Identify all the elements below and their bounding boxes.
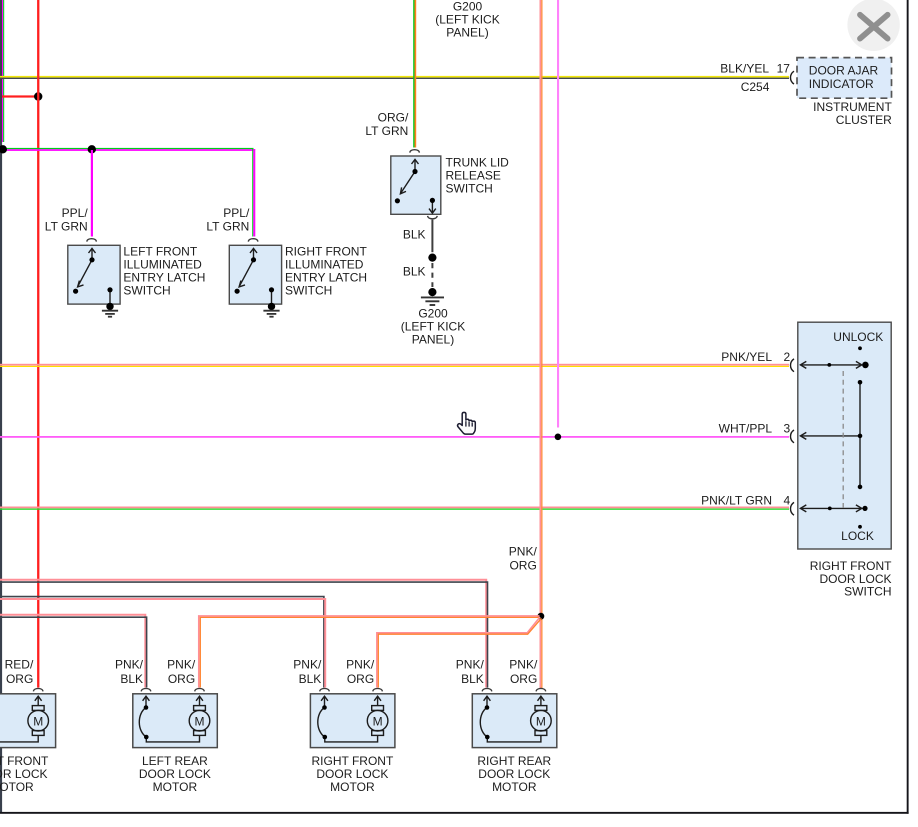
- connector arc right rear motor right pin: [536, 688, 546, 691]
- label WHT/PPL: [719, 422, 773, 436]
- wire BLK solid from trunk switch: [431, 220, 433, 253]
- svg-text:LT GRN: LT GRN: [206, 219, 249, 233]
- label right rear door lock motor: [477, 754, 551, 794]
- svg-text:SWITCH: SWITCH: [285, 284, 332, 298]
- left rear door lock motor: [133, 694, 218, 748]
- wire PPL/LT GRN horizontal to latch switches: [3, 148, 254, 151]
- right front illuminated entry latch switch S2: [229, 245, 281, 304]
- wire PNK/BLK to right front motor left pin: [0, 597, 325, 688]
- svg-text:BLK: BLK: [299, 672, 322, 686]
- label pin 2: [783, 350, 790, 364]
- svg-text:TRUNK LID: TRUNK LID: [446, 156, 510, 170]
- svg-text:ORG: ORG: [509, 559, 536, 573]
- label right front door lock motor: [312, 754, 394, 794]
- svg-text:MOTOR: MOTOR: [330, 780, 375, 794]
- svg-text:LEFT REAR: LEFT REAR: [142, 754, 208, 768]
- ground symbol G200: [421, 297, 444, 305]
- label PNK/ORG left rear: [167, 658, 196, 687]
- wire PNK/BLK to right rear motor left pin: [0, 580, 488, 688]
- svg-text:ORG: ORG: [6, 672, 33, 686]
- node junction dot red stub: [34, 92, 42, 100]
- svg-text:PNK/: PNK/: [509, 658, 538, 672]
- node junction dot PNK/ORG: [538, 613, 545, 620]
- door ajar indicator dashed box: [797, 58, 892, 99]
- connector cup below trunk switch: [428, 216, 438, 219]
- wire ORG/LT GRN vertical to trunk lid release switch: [413, 0, 416, 148]
- label left rear door lock motor: [139, 754, 211, 794]
- wire PPL vertical to left latch switch: [91, 150, 93, 237]
- ground symbol left latch switch: [102, 303, 118, 317]
- wire PNK/YEL horizontal to door lock switch pin 2: [0, 364, 789, 367]
- connector arc left rear motor left pin: [141, 688, 151, 691]
- mouse cursor pointer: [458, 412, 476, 434]
- svg-text:DOOR LOCK: DOOR LOCK: [0, 767, 48, 781]
- wire PPL vertical at left edge: [2, 0, 3, 142]
- svg-text:RIGHT FRONT: RIGHT FRONT: [285, 245, 367, 259]
- svg-text:RIGHT REAR: RIGHT REAR: [477, 754, 551, 768]
- connector arc right front motor left pin: [320, 688, 330, 691]
- svg-text:LEFT FRONT: LEFT FRONT: [0, 754, 49, 768]
- svg-text:PNK/YEL: PNK/YEL: [721, 350, 772, 364]
- svg-text:M: M: [195, 715, 205, 729]
- label ORG/LT GRN: [365, 111, 409, 139]
- label PNK/ORG right front: [346, 658, 375, 687]
- label trunk lid release switch: [446, 156, 510, 196]
- connector arc trunk lid release switch: [410, 150, 420, 153]
- label C254: [741, 80, 770, 94]
- svg-text:BLK/YEL: BLK/YEL: [720, 62, 769, 76]
- connector paren C254: [790, 71, 794, 84]
- svg-text:(LEFT KICK: (LEFT KICK: [401, 320, 465, 334]
- svg-text:4: 4: [783, 494, 790, 508]
- label BLK upper: [403, 228, 426, 242]
- svg-text:PANEL): PANEL): [412, 333, 454, 347]
- wire WHT/PPL vertical: [557, 0, 559, 428]
- trunk lid release switch S3: [391, 156, 441, 214]
- svg-text:LOCK: LOCK: [841, 529, 874, 543]
- svg-text:BLK: BLK: [403, 265, 426, 279]
- svg-text:RED/: RED/: [5, 658, 34, 672]
- svg-text:M: M: [33, 715, 43, 729]
- label pin 17: [777, 62, 791, 76]
- connector arc right front motor right pin: [373, 688, 383, 691]
- svg-text:PPL/: PPL/: [62, 206, 89, 220]
- wire PNK/LT GRN horizontal to door lock switch pin 4: [0, 507, 789, 510]
- label pin 3: [783, 422, 790, 436]
- svg-text:ENTRY LATCH: ENTRY LATCH: [285, 271, 367, 285]
- svg-text:DOOR AJAR: DOOR AJAR: [809, 63, 879, 77]
- wire PNK/BLK to left rear motor left pin: [0, 615, 147, 688]
- left frame border: [0, 0, 2, 813]
- wire WHT/PPL horizontal to door lock switch pin 3: [0, 436, 789, 438]
- node splice dot BLK: [428, 254, 436, 262]
- svg-text:G200: G200: [453, 0, 483, 14]
- svg-text:INDICATOR: INDICATOR: [809, 77, 874, 91]
- wire PNK/ORG to right front motor right pin: [377, 617, 542, 688]
- svg-text:(LEFT KICK: (LEFT KICK: [435, 13, 499, 27]
- label left front illuminated entry latch switch: [123, 245, 205, 298]
- label instrument cluster: [813, 100, 892, 127]
- svg-text:PNK/LT GRN: PNK/LT GRN: [701, 494, 772, 508]
- connector arc right latch switch: [248, 239, 258, 242]
- connector arc left front motor pin: [33, 688, 43, 691]
- label pin 4: [783, 494, 790, 508]
- svg-text:PNK/: PNK/: [167, 658, 196, 672]
- label PNK/BLK right rear: [456, 658, 485, 687]
- svg-text:RIGHT FRONT: RIGHT FRONT: [810, 559, 892, 573]
- close button X: [847, 0, 899, 51]
- svg-text:ILLUMINATED: ILLUMINATED: [123, 258, 202, 272]
- svg-text:17: 17: [777, 62, 791, 76]
- svg-text:PNK/: PNK/: [293, 658, 322, 672]
- svg-text:SWITCH: SWITCH: [844, 585, 891, 599]
- svg-text:ORG/: ORG/: [378, 111, 409, 125]
- svg-text:DOOR LOCK: DOOR LOCK: [316, 767, 388, 781]
- svg-text:SWITCH: SWITCH: [123, 284, 170, 298]
- label PPL/LT GRN right: [206, 206, 250, 233]
- svg-text:MOTOR: MOTOR: [153, 780, 198, 794]
- svg-text:INSTRUMENT: INSTRUMENT: [813, 100, 892, 114]
- svg-text:UNLOCK: UNLOCK: [833, 330, 883, 344]
- node junction dot at left edge: [0, 145, 7, 153]
- svg-text:ORG: ORG: [510, 672, 537, 686]
- svg-text:RIGHT FRONT: RIGHT FRONT: [312, 754, 394, 768]
- connector paren pin 3: [790, 430, 794, 443]
- svg-text:WHT/PPL: WHT/PPL: [719, 422, 773, 436]
- node junction dot WHT/PPL: [555, 434, 562, 441]
- svg-text:CLUSTER: CLUSTER: [836, 113, 892, 127]
- wire RED/ORG horizontal stub at left: [2, 95, 39, 97]
- svg-text:SWITCH: SWITCH: [446, 182, 493, 196]
- wire PPL/LT GRN vertical to right latch switch: [252, 149, 255, 237]
- label PPL/LT GRN left: [45, 206, 89, 233]
- svg-text:ORG: ORG: [168, 672, 195, 686]
- svg-text:MOTOR: MOTOR: [0, 780, 34, 794]
- connector paren pin 2: [790, 359, 794, 372]
- wire PNK/ORG main vertical: [540, 0, 543, 688]
- right front door lock switch S4: [798, 322, 891, 549]
- node ground dot G200: [428, 288, 436, 296]
- svg-text:C254: C254: [741, 80, 770, 94]
- bottom frame border: [0, 812, 909, 814]
- svg-text:ILLUMINATED: ILLUMINATED: [285, 258, 364, 272]
- label PNK/BLK left rear: [115, 658, 144, 687]
- label RED/ORG: [5, 658, 34, 687]
- svg-text:DOOR LOCK: DOOR LOCK: [139, 767, 211, 781]
- label right front door lock switch: [810, 559, 892, 599]
- label PNK/ORG right rear: [509, 658, 538, 687]
- label G200 top: [435, 0, 499, 40]
- wire RED/ORG vertical to left front motor: [37, 0, 39, 688]
- label left front door lock motor: [0, 754, 49, 794]
- svg-text:DOOR LOCK: DOOR LOCK: [478, 767, 550, 781]
- connector arc left latch switch: [87, 239, 97, 242]
- label PNK/ORG main vertical: [509, 545, 538, 573]
- svg-text:LT GRN: LT GRN: [365, 124, 408, 138]
- left front illuminated entry latch switch S1: [68, 245, 120, 304]
- wire BLK dashed to ground: [431, 263, 433, 287]
- right front door lock motor: [310, 694, 395, 748]
- label PNK/LT GRN: [701, 494, 772, 508]
- svg-text:PNK/: PNK/: [456, 658, 485, 672]
- svg-text:PPL/: PPL/: [223, 206, 250, 220]
- right frame border: [907, 0, 909, 814]
- svg-text:ORG: ORG: [347, 672, 374, 686]
- wire LT GRN vertical at left edge: [3, 0, 4, 142]
- svg-text:LEFT FRONT: LEFT FRONT: [123, 245, 197, 259]
- label BLK/YEL: [720, 62, 769, 76]
- left front door lock motor U4 (cut off at edge): [0, 694, 56, 748]
- svg-text:PANEL): PANEL): [446, 26, 488, 40]
- connector paren pin 4: [790, 502, 794, 515]
- ground symbol right latch switch: [263, 303, 279, 317]
- wire PNK/ORG to left rear motor right pin: [199, 616, 540, 688]
- svg-text:2: 2: [783, 350, 790, 364]
- right rear door lock motor: [472, 694, 557, 748]
- connector arc right rear motor left pin: [482, 688, 492, 691]
- svg-text:3: 3: [783, 422, 790, 436]
- svg-text:MOTOR: MOTOR: [492, 780, 537, 794]
- label PNK/YEL: [721, 350, 772, 364]
- label PNK/BLK right front: [293, 658, 322, 687]
- svg-text:BLK: BLK: [461, 672, 484, 686]
- svg-text:BLK: BLK: [403, 228, 426, 242]
- label BLK lower: [403, 265, 426, 279]
- svg-text:BLK: BLK: [120, 672, 143, 686]
- svg-text:PNK/: PNK/: [346, 658, 375, 672]
- svg-text:RELEASE: RELEASE: [446, 169, 501, 183]
- svg-text:ENTRY LATCH: ENTRY LATCH: [123, 271, 205, 285]
- label right front illuminated entry latch switch: [285, 245, 367, 298]
- svg-text:PNK/: PNK/: [115, 658, 144, 672]
- svg-text:M: M: [536, 715, 546, 729]
- connector arc left rear motor right pin: [195, 688, 205, 691]
- label G200 left kick panel: [401, 307, 465, 347]
- svg-text:M: M: [373, 715, 383, 729]
- svg-text:G200: G200: [418, 307, 448, 321]
- svg-text:PNK/: PNK/: [509, 545, 538, 559]
- svg-text:LT GRN: LT GRN: [45, 219, 88, 233]
- node junction dot left latch branch: [88, 145, 96, 153]
- wire BLK/YEL horizontal to instrument cluster: [0, 76, 789, 79]
